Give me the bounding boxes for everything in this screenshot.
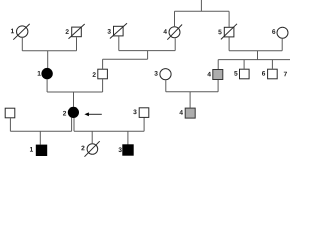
label II-2 "2" <box>93 72 96 77</box>
wire: drop to II-2 <box>102 59 104 69</box>
individual I-6 female <box>277 27 288 38</box>
individual III-2 proband affected female <box>68 107 79 118</box>
individual II-2 male <box>98 69 108 79</box>
wire: family bar III-1 x III-2 <box>10 130 71 132</box>
wire: drop to II-5 <box>243 60 245 69</box>
individual II-3 female <box>160 69 171 80</box>
wire: sibship bar I-4/I-5 <box>175 10 230 12</box>
wire: I-2 descent <box>76 37 78 51</box>
label IV-2 "2" <box>81 146 84 151</box>
individual II-6 male <box>268 69 278 79</box>
individual IV-3 affected male <box>122 144 133 155</box>
wire: sibship bar II-4..II-7 <box>218 59 290 61</box>
wire: couple bar II-1 x II-2 <box>47 91 103 93</box>
label I-1 "1" <box>11 29 14 34</box>
individual I-3 deceased male <box>110 23 127 38</box>
individual I-2 deceased male <box>69 24 85 39</box>
individual II-1 affected female <box>41 68 52 79</box>
wire: III-3 descent <box>143 117 145 131</box>
wire: jog bar to II-2 <box>103 58 148 60</box>
label II-4 "4" <box>207 72 211 77</box>
individual III-4 carrier male <box>185 108 195 118</box>
wire: drop to IV-2 <box>91 131 93 143</box>
proband arrow <box>84 112 101 116</box>
wire: drop to II-6 <box>271 60 273 69</box>
wire: I-1 descent <box>21 38 23 51</box>
wire: couple bar I-5 x I-6 <box>229 50 282 52</box>
wire: II-4 descent <box>217 80 219 92</box>
label I-6 "6" <box>272 29 275 34</box>
wire: drop to III-4 <box>189 92 191 108</box>
individual III-1 male <box>5 108 15 118</box>
label III-3 "3" <box>133 109 136 114</box>
wire: III-2 right descent <box>73 118 75 132</box>
individual I-5 deceased male <box>221 24 237 40</box>
wire: III-2 left descent <box>71 118 73 132</box>
individual II-4 carrier male <box>213 70 223 80</box>
wire: drop to I-4 <box>174 11 176 26</box>
wire: drop to III-2 <box>73 92 75 107</box>
label IV-3 "3" <box>118 147 121 152</box>
label I-2 "2" <box>66 29 69 34</box>
individual I-4 deceased female <box>167 25 182 40</box>
individual IV-2 deceased female <box>85 141 100 157</box>
wire: II-3 descent <box>165 80 167 92</box>
label I-3 "3" <box>107 29 110 34</box>
wire: drop to II-4 <box>217 60 219 70</box>
wire: couple bar II-3 x II-4 <box>166 91 218 93</box>
wire: central drop from I-5/I-6 bar <box>257 51 259 60</box>
individual I-1 deceased female <box>13 24 29 40</box>
wire: II-2 descent <box>102 79 104 92</box>
label I-4 "4" <box>163 29 167 34</box>
wire: central drop from I-3/I-4 bar <box>147 51 149 60</box>
wire: drop to I-5 <box>228 11 230 27</box>
wire: I-4 descent <box>174 38 176 50</box>
wire: I-5 descent <box>228 37 230 50</box>
label III-2 "2" <box>63 111 66 116</box>
individual IV-1 affected male <box>36 145 47 156</box>
wire: drop to IV-3 <box>127 131 129 144</box>
individual II-5 male <box>240 69 250 79</box>
label III-4 "4" <box>179 110 183 115</box>
wire: III-1 descent <box>9 118 11 131</box>
wire: drop to IV-1 <box>39 131 41 144</box>
individual III-3 male <box>139 108 149 118</box>
label I-5 "5" <box>218 30 221 35</box>
wire: drop to II-1 <box>47 51 49 68</box>
label II-3 "3" <box>154 71 157 76</box>
wire: couple bar I-3 x I-4 <box>119 50 175 52</box>
label II-1 "1" <box>38 71 41 76</box>
wire: II-1 descent <box>46 79 48 92</box>
wire: I-6 descent <box>281 39 283 51</box>
label II-5 "5" <box>234 71 237 76</box>
wire: family bar III-2 x III-3 <box>74 130 144 132</box>
label II-6 "6" <box>262 71 265 76</box>
wire: top stub above I-4/I-5 sibship <box>200 0 202 11</box>
label IV-1 "1" <box>30 147 33 152</box>
label II-7 "7" <box>284 72 287 77</box>
wire: couple bar I-1 x I-2 <box>22 50 76 52</box>
wire: I-3 descent <box>118 36 120 50</box>
